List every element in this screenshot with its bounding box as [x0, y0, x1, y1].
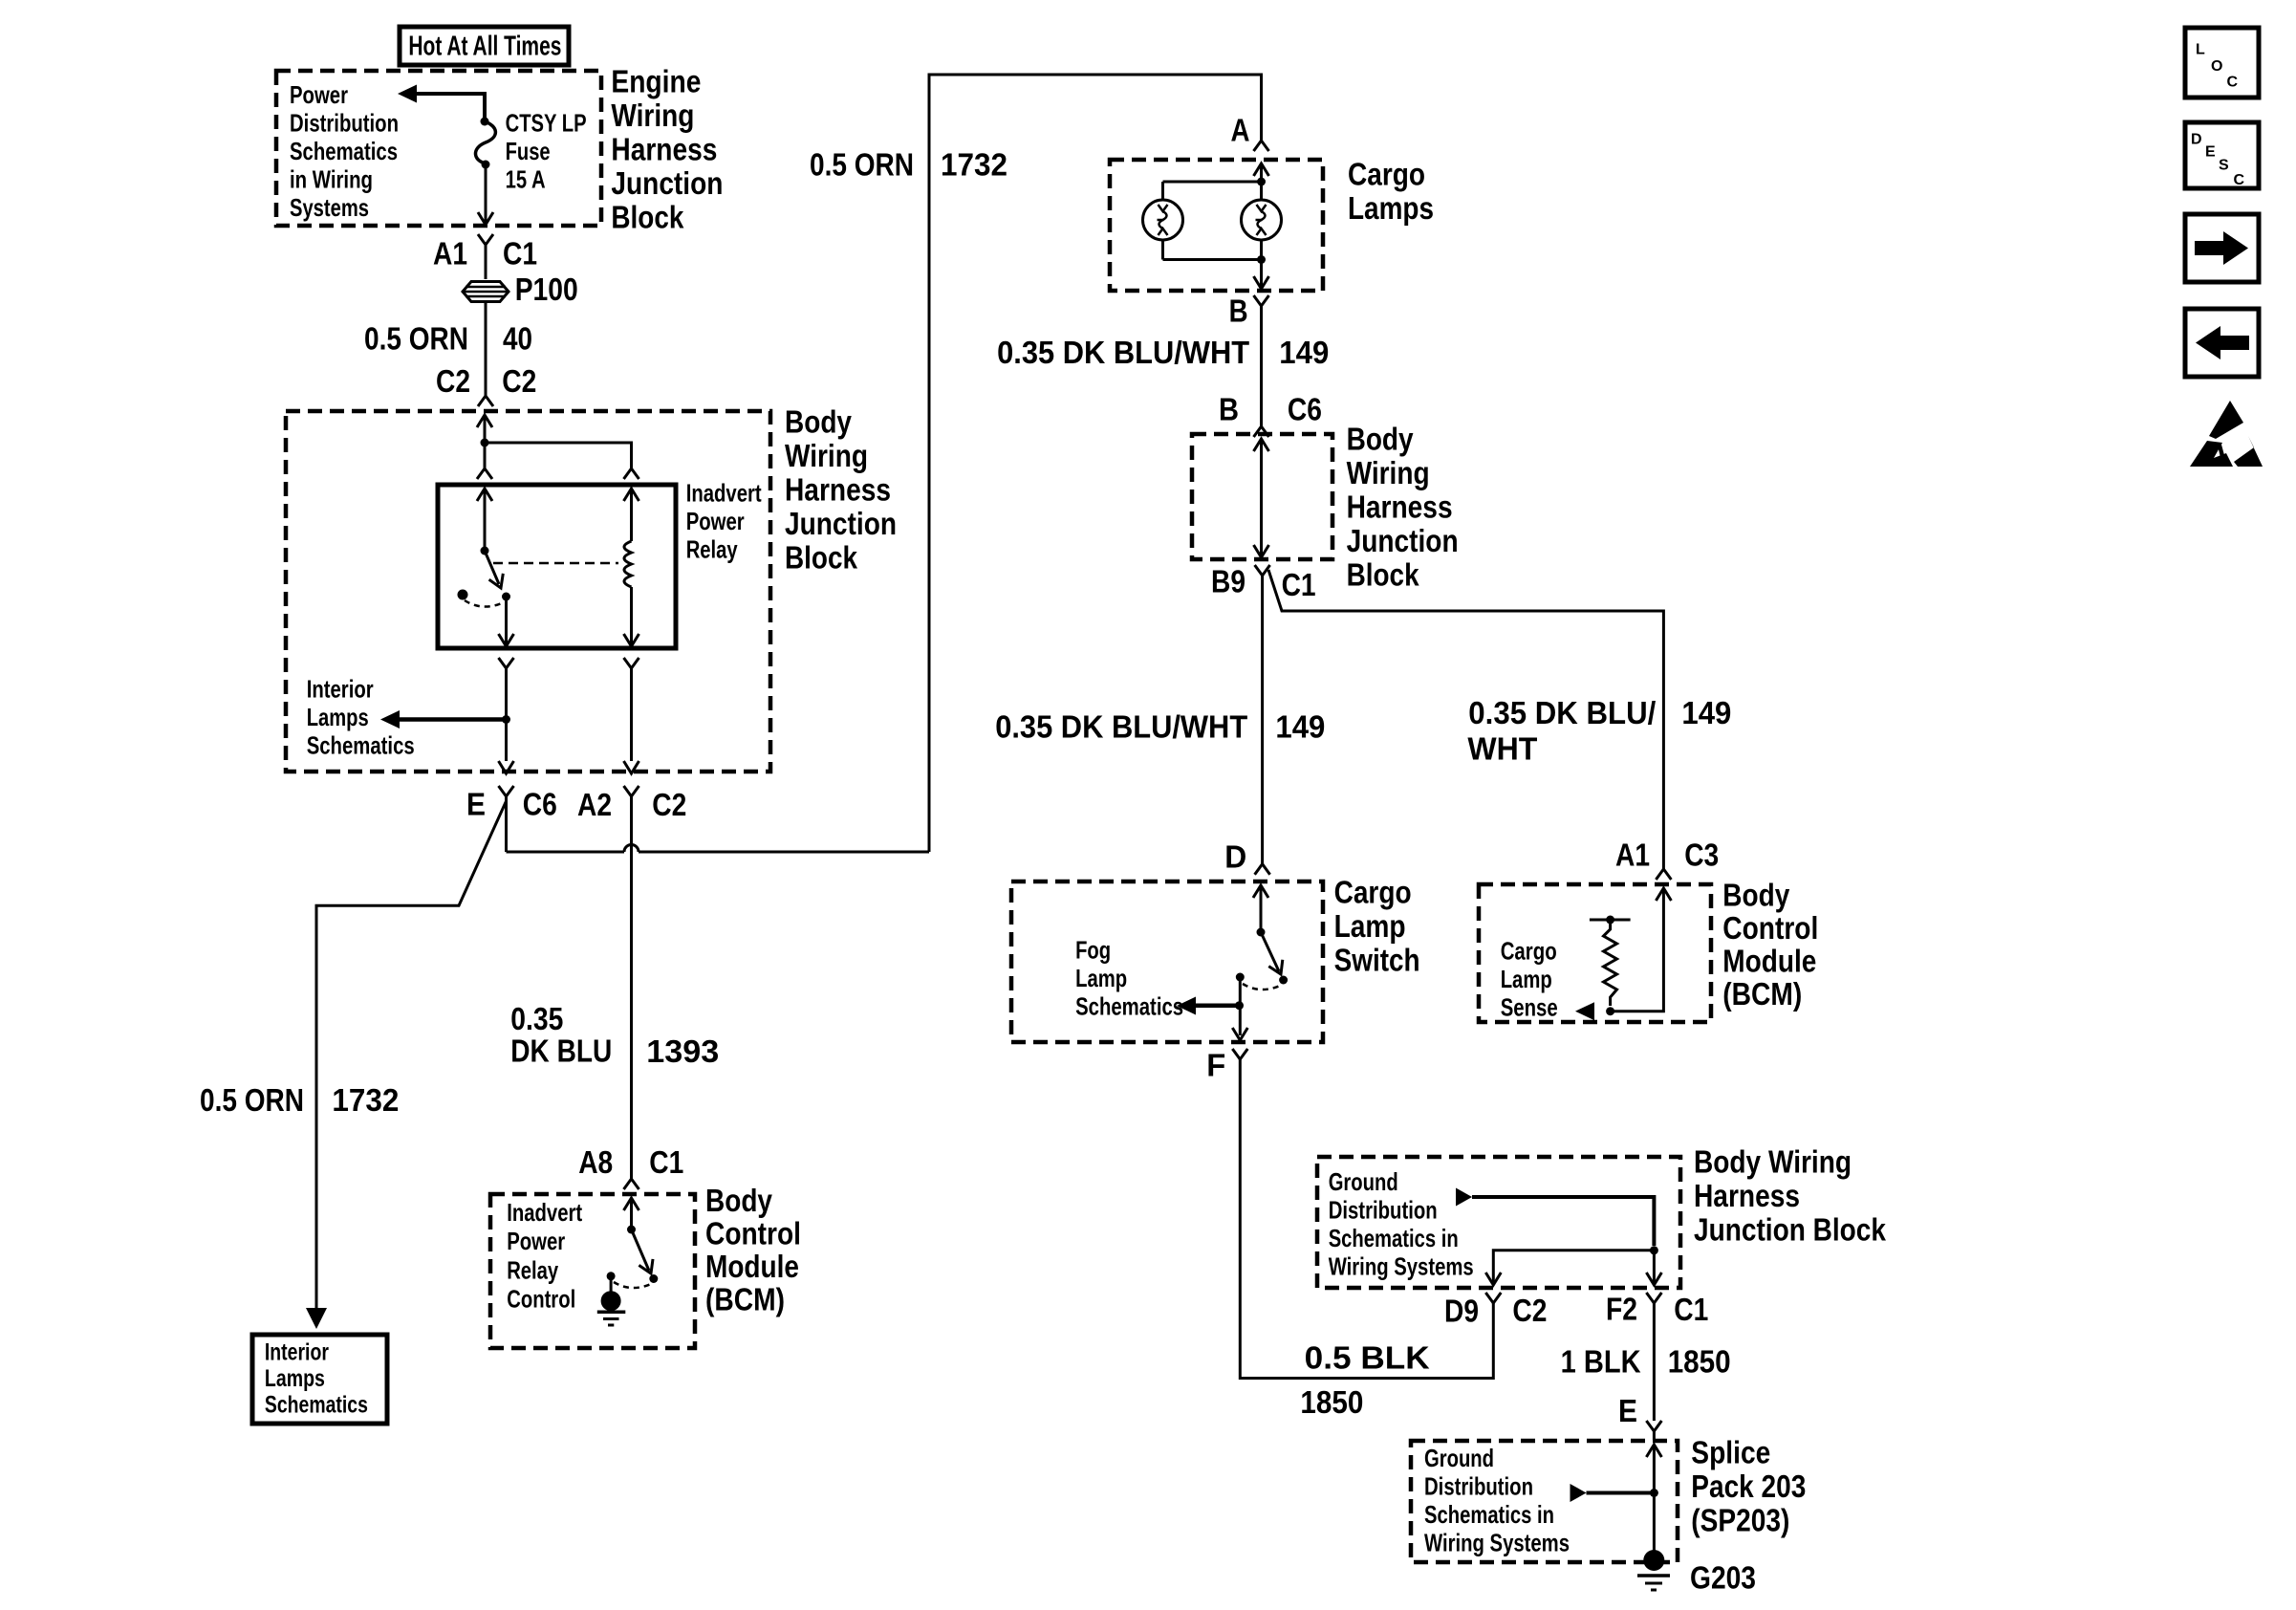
connector fork B9/C1 — [1255, 565, 1270, 576]
icon box: DESC — [2185, 122, 2259, 188]
ground symbol G203 — [1637, 1574, 1670, 1577]
svg-text:Relay: Relay — [686, 534, 738, 563]
svg-text:0.35 DK BLU/WHT: 0.35 DK BLU/WHT — [995, 709, 1247, 745]
wire: junction down to relay switch input — [484, 443, 487, 468]
wire: right lamp lower lead — [1260, 240, 1263, 260]
relay switch fixed contact dot — [458, 590, 468, 600]
connector fork F2/C1 — [1646, 1293, 1661, 1303]
svg-text:Distribution: Distribution — [1329, 1196, 1438, 1225]
svg-text:Schematics: Schematics — [290, 137, 398, 165]
svg-text:Harness: Harness — [785, 472, 891, 508]
BCM ground contact dot — [607, 1272, 616, 1280]
switch: Cargo Lamp Switch (dashed box) — [1011, 881, 1323, 1042]
wire: branch to Fog Lamp Schematics arrow — [1193, 1003, 1240, 1008]
connector fork E (splice) — [1646, 1421, 1661, 1431]
svg-text:15 A: 15 A — [506, 165, 546, 194]
wire: junction to relay coil branch — [485, 443, 632, 468]
label box: Interior Lamps Schematics — [252, 1335, 387, 1424]
svg-text:Module: Module — [705, 1249, 799, 1284]
svg-text:0.35 DK BLU/: 0.35 DK BLU/ — [1468, 695, 1656, 730]
wire 1393: A2 to BCM A8 — [630, 796, 633, 1179]
wire: left lamp drop lower — [1161, 240, 1164, 260]
svg-text:C2: C2 — [1512, 1293, 1547, 1328]
svg-text:Wiring: Wiring — [1347, 455, 1430, 490]
inline connector P100 (symbol) — [463, 282, 509, 302]
arrowhead into splice pack — [1646, 1445, 1661, 1457]
connector fork D9/C2 — [1485, 1293, 1501, 1303]
BCM switch pivot dot — [627, 1226, 636, 1234]
wire 1850: F2 to E — [1653, 1303, 1656, 1421]
junction dot to Fog Lamp arrow — [1235, 1001, 1244, 1010]
svg-text:Interior: Interior — [307, 674, 374, 703]
svg-text:1850: 1850 — [1668, 1343, 1731, 1379]
svg-text:Schematics in: Schematics in — [1329, 1224, 1459, 1252]
arrowhead into Body JB top edge — [477, 415, 492, 427]
connector fork C2/C2 — [478, 396, 493, 406]
junction dot to Interior Lamps — [502, 715, 510, 724]
wire: ground distribution feed — [1472, 1197, 1654, 1246]
junction dot cargo bottom rail — [1257, 255, 1266, 264]
svg-text:Lamps: Lamps — [307, 703, 369, 731]
ground dot G203 — [1643, 1550, 1664, 1571]
svg-text:Body Wiring: Body Wiring — [1694, 1143, 1852, 1179]
fuse CTSY LP 15A (element) — [475, 121, 495, 163]
svg-text:Power: Power — [686, 507, 745, 535]
svg-text:Splice: Splice — [1691, 1435, 1770, 1470]
wire: top edge to junction — [484, 415, 487, 443]
wire: relay coil output lead — [630, 587, 633, 646]
svg-text:in Wiring: in Wiring — [290, 164, 373, 193]
icon: back arrow — [2196, 326, 2249, 359]
svg-text:Lamps: Lamps — [265, 1365, 325, 1392]
wire: relay switch out to Body JB bottom edge — [505, 668, 508, 761]
wire: fuse feed to Power Distribution arrow — [415, 94, 485, 118]
svg-text:A8: A8 — [578, 1144, 613, 1180]
wire 1732: riser up and over to Cargo Lamps A — [929, 75, 1262, 852]
svg-text:40: 40 — [503, 321, 532, 357]
connector fork B/C6 — [1254, 426, 1269, 437]
svg-text:0.35 DK BLU/WHT: 0.35 DK BLU/WHT — [997, 335, 1249, 370]
arrowhead at Body JB bottom (coil side) — [624, 761, 639, 773]
svg-text:Body: Body — [785, 404, 853, 440]
reference arrow: Fog Lamp Schematics — [1177, 997, 1196, 1015]
svg-text:L: L — [2196, 42, 2205, 58]
svg-text:Block: Block — [611, 200, 684, 235]
svg-text:E: E — [2205, 144, 2216, 161]
svg-text:D: D — [1224, 839, 1246, 875]
svg-text:149: 149 — [1681, 695, 1731, 730]
reference arrow: to Power Distribution Schematics — [398, 85, 417, 103]
svg-text:C6: C6 — [1288, 392, 1322, 427]
svg-text:Fuse: Fuse — [506, 137, 551, 165]
BCM switch dashed arc — [614, 1282, 651, 1288]
switch pivot dot — [1257, 928, 1266, 937]
svg-text:D: D — [2191, 132, 2202, 148]
svg-text:Control: Control — [507, 1285, 575, 1314]
junction dot resistor top — [1606, 916, 1614, 925]
relay switch dashed arc — [465, 600, 504, 607]
wire: splice arrow shaft — [1587, 1491, 1655, 1495]
svg-text:Switch: Switch — [1334, 943, 1420, 978]
svg-text:C2: C2 — [502, 363, 536, 399]
svg-text:Body: Body — [705, 1183, 773, 1218]
wire 149: B to Body JB — [1260, 306, 1263, 426]
switch output contact dot — [1236, 973, 1245, 982]
connector fork into relay (coil side) — [624, 468, 639, 479]
svg-text:DK BLU: DK BLU — [510, 1033, 612, 1068]
svg-text:G203: G203 — [1690, 1560, 1756, 1596]
svg-text:E: E — [1618, 1393, 1637, 1428]
BCM switch blade — [632, 1229, 650, 1271]
connector fork D — [1255, 864, 1270, 875]
svg-text:Ground: Ground — [1329, 1167, 1398, 1196]
svg-text:WHT: WHT — [1467, 730, 1537, 766]
wire: E fork to splice box — [1653, 1431, 1656, 1440]
svg-text:D9: D9 — [1444, 1293, 1479, 1328]
svg-text:0.5 ORN: 0.5 ORN — [364, 321, 468, 357]
arrowhead at JB bottom (D9 leg) — [1485, 1273, 1501, 1285]
svg-text:Control: Control — [705, 1216, 801, 1251]
wire: fuse to junction block edge — [485, 164, 487, 223]
svg-text:F2: F2 — [1606, 1292, 1637, 1327]
connector fork A1/C1 — [478, 234, 493, 245]
svg-text:Wiring Systems: Wiring Systems — [1329, 1252, 1474, 1281]
svg-text:Power: Power — [507, 1227, 565, 1255]
connector fork E/C6 — [499, 786, 514, 796]
svg-text:0.5 BLK: 0.5 BLK — [1305, 1340, 1430, 1376]
svg-text:Schematics: Schematics — [265, 1392, 368, 1419]
svg-text:Schematics in: Schematics in — [1424, 1500, 1554, 1529]
svg-text:1850: 1850 — [1300, 1384, 1363, 1420]
arrowhead relay coil input — [624, 489, 639, 501]
svg-text:Distribution: Distribution — [1424, 1471, 1533, 1500]
switch blade arrowhead — [1268, 960, 1283, 974]
svg-text:C: C — [2234, 172, 2245, 188]
svg-text:Body: Body — [1722, 878, 1790, 913]
module: Body Control Module BCM (left) — [490, 1194, 695, 1348]
arrowhead into BCM right — [1656, 888, 1671, 901]
svg-text:Schematics: Schematics — [1075, 991, 1183, 1020]
wire: left lamp drop upper — [1161, 182, 1164, 201]
svg-text:Relay: Relay — [507, 1255, 558, 1284]
arrowhead into BCM left — [624, 1198, 639, 1210]
module: Body Control Module BCM (right) — [1479, 884, 1711, 1022]
svg-text:B: B — [1219, 392, 1239, 427]
junction dot ground split — [1650, 1246, 1658, 1254]
wire: relay coil out to Body JB bottom edge — [630, 668, 633, 761]
switch dashed arc — [1243, 984, 1280, 990]
svg-text:O: O — [2211, 58, 2222, 75]
junction dot resistor bottom — [1606, 1007, 1614, 1015]
svg-text:Power: Power — [290, 80, 348, 109]
svg-text:Cargo: Cargo — [1501, 936, 1557, 965]
svg-text:C1: C1 — [1282, 567, 1316, 602]
svg-text:Harness: Harness — [1347, 490, 1453, 525]
svg-text:Body: Body — [1347, 422, 1415, 457]
fuse bottom terminal dot — [482, 161, 490, 169]
svg-text:Block: Block — [1347, 557, 1420, 593]
arrowhead at JB bottom (F2 leg) — [1646, 1273, 1661, 1285]
svg-text:Lamps: Lamps — [1348, 190, 1434, 226]
svg-text:Block: Block — [785, 540, 858, 576]
arrowhead relay coil output — [624, 634, 639, 646]
svg-text:Ground: Ground — [1424, 1444, 1494, 1472]
svg-text:Distribution: Distribution — [290, 108, 399, 137]
BCM switch moving contact dot — [649, 1274, 658, 1283]
relay actuation dashed line — [493, 562, 618, 565]
connector fork A1/C3 — [1656, 869, 1671, 880]
reference arrow: Interior Lamps Schematics — [380, 710, 400, 729]
connector fork F — [1232, 1049, 1247, 1059]
connector fork into relay (switch side) — [477, 468, 492, 479]
relay switch moving contact dot — [502, 593, 510, 601]
svg-text:CTSY LP: CTSY LP — [506, 109, 587, 138]
junction block: Engine Wiring Harness Junction Block — [276, 71, 601, 226]
arrowhead at Body JB bottom (switch side) — [499, 761, 514, 773]
svg-text:C2: C2 — [436, 363, 470, 399]
icon box: back arrow — [2185, 309, 2259, 377]
svg-text:Fog: Fog — [1075, 935, 1111, 964]
connector fork B (cargo lamps) — [1254, 295, 1269, 306]
svg-text:Control: Control — [1722, 910, 1818, 946]
wire: cargo feed to top rail — [1260, 163, 1263, 182]
arrowhead to Interior Lamps Schematics box — [306, 1308, 327, 1329]
svg-text:1732: 1732 — [332, 1082, 399, 1118]
svg-text:F: F — [1206, 1048, 1225, 1083]
svg-text:Junction Block: Junction Block — [1694, 1211, 1887, 1247]
wire: cargo lamps return to bottom edge — [1260, 260, 1263, 288]
svg-text:(BCM): (BCM) — [705, 1282, 785, 1317]
svg-text:Lamp: Lamp — [1075, 964, 1127, 992]
switch blade — [1261, 932, 1279, 971]
svg-text:(BCM): (BCM) — [1722, 976, 1802, 1012]
svg-text:A2: A2 — [577, 787, 612, 822]
svg-text:Inadvert: Inadvert — [507, 1198, 582, 1227]
svg-text:(SP203): (SP203) — [1691, 1503, 1789, 1538]
svg-text:Inadvert: Inadvert — [686, 478, 762, 507]
svg-text:Lamp: Lamp — [1501, 965, 1552, 993]
wire 149 branch: B9 to BCM A1 — [1268, 570, 1663, 869]
wire: relay coil input lead — [630, 489, 633, 541]
svg-text:Wiring Systems: Wiring Systems — [1424, 1528, 1570, 1556]
BCM switch blade arrowhead — [639, 1259, 653, 1273]
cargo top rail — [1163, 181, 1262, 184]
svg-text:149: 149 — [1279, 335, 1329, 370]
arrowhead into switch box — [1253, 885, 1268, 898]
svg-text:C1: C1 — [1674, 1292, 1708, 1327]
svg-text:1732: 1732 — [941, 147, 1007, 183]
junction dot cargo top rail — [1257, 178, 1266, 186]
arrowhead at Engine JB bottom edge — [478, 212, 493, 225]
arrowhead into right JB top — [1254, 439, 1269, 451]
svg-text:S: S — [2219, 158, 2229, 174]
junction block: Body Wiring Harness Junction Block (bottom) — [1317, 1157, 1680, 1288]
wire: splice pack internal — [1653, 1445, 1656, 1553]
wire 149: B9 to D — [1261, 576, 1264, 864]
svg-text:B9: B9 — [1211, 564, 1245, 599]
svg-text:149: 149 — [1275, 709, 1325, 745]
svg-text:Interior: Interior — [265, 1339, 329, 1366]
junction block: Body Wiring Harness Junction Block (left) — [286, 411, 770, 772]
relay coil (element) — [624, 541, 632, 587]
arrowhead into Cargo Lamps top — [1254, 163, 1269, 176]
reference arrow: Ground Distribution (SP) — [1570, 1484, 1587, 1502]
svg-text:Cargo: Cargo — [1334, 875, 1412, 910]
svg-text:C6: C6 — [523, 786, 557, 821]
wire: A1 to P100 — [485, 245, 487, 279]
svg-text:Systems: Systems — [290, 193, 369, 222]
svg-text:Junction: Junction — [1347, 523, 1459, 558]
reference arrow: Ground Distribution (JB) — [1456, 1188, 1472, 1207]
svg-text:C1: C1 — [503, 236, 537, 272]
wire: E-C6 run toward cargo feed riser (right part) — [639, 851, 929, 854]
arrowhead at Cargo Lamps bottom edge — [1254, 276, 1269, 289]
connector fork below relay (switch out) — [499, 658, 514, 668]
ground dot (BCM) — [601, 1291, 621, 1311]
wire 1850: F down and right to D9 — [1240, 1059, 1493, 1379]
svg-text:Lamp: Lamp — [1334, 908, 1406, 944]
svg-text:P100: P100 — [515, 272, 578, 307]
svg-text:A: A — [1231, 113, 1250, 148]
svg-text:A1: A1 — [433, 236, 467, 272]
svg-text:Pack 203: Pack 203 — [1691, 1469, 1806, 1504]
label box: Hot At All Times — [400, 27, 569, 65]
icon box: forward arrow — [2185, 214, 2259, 282]
ground symbol (BCM) — [597, 1311, 626, 1315]
wire: BCM switch input to pivot — [630, 1198, 633, 1229]
svg-text:Hot At All Times: Hot At All Times — [408, 32, 561, 62]
junction dot splice — [1650, 1489, 1658, 1497]
splice pack: SP203 (dashed box) — [1411, 1441, 1678, 1562]
svg-text:C1: C1 — [649, 1144, 683, 1180]
cargo bottom rail — [1163, 258, 1262, 261]
arrowhead relay switch input — [477, 489, 492, 501]
svg-text:0.5 ORN: 0.5 ORN — [200, 1082, 304, 1118]
connector fork A2/C2 — [624, 786, 639, 796]
wire: branch to Interior Lamps arrow — [397, 717, 507, 722]
wire: ground split to D9 leg — [1493, 1251, 1654, 1282]
relay switch pivot dot — [481, 547, 489, 555]
svg-text:A1: A1 — [1615, 837, 1650, 872]
svg-text:Harness: Harness — [611, 132, 717, 167]
icon box: LOC — [2185, 28, 2259, 98]
svg-text:Sense: Sense — [1501, 992, 1558, 1021]
svg-text:1 BLK: 1 BLK — [1561, 1343, 1641, 1379]
relay: Inadvert Power Relay — [438, 485, 676, 648]
junction dot at relay feed split — [481, 439, 489, 447]
icon: ESD warning triangle — [2209, 401, 2243, 439]
wire: right lamp upper lead — [1260, 182, 1263, 201]
switch moving contact dot — [1279, 976, 1288, 985]
resistor: cargo lamp sense pull-up — [1590, 919, 1631, 922]
svg-text:Cargo: Cargo — [1348, 157, 1425, 192]
wire 40: P100 to C2 fork — [485, 302, 487, 396]
junction block: Body Wiring Harness Junction Block (right) — [1192, 434, 1332, 559]
svg-text:Engine: Engine — [611, 64, 701, 99]
relay switch blade — [485, 551, 499, 584]
svg-text:Junction: Junction — [785, 506, 897, 541]
connector fork A8/C1 — [624, 1179, 639, 1189]
wire inside right JB — [1260, 439, 1263, 557]
wire: switch input to pivot — [1260, 885, 1263, 932]
wire: BCM contact to ground — [610, 1276, 613, 1295]
component: Cargo Lamps (dashed box) — [1110, 160, 1323, 291]
wire: relay switch input to pivot — [484, 489, 487, 551]
svg-text:B: B — [1229, 294, 1248, 329]
svg-text:C3: C3 — [1684, 837, 1719, 872]
fuse top terminal dot — [481, 118, 489, 126]
svg-text:Harness: Harness — [1694, 1178, 1800, 1213]
svg-text:Module: Module — [1722, 944, 1816, 979]
svg-text:E: E — [466, 786, 486, 821]
svg-text:C: C — [2227, 75, 2239, 91]
wire 1732: E to orange branch corner — [316, 801, 507, 1308]
svg-text:0.35: 0.35 — [510, 1001, 563, 1036]
wire: relay switch output — [505, 600, 508, 646]
cargo lamp bulb (left) — [1143, 200, 1183, 240]
wire hop over A2 wire — [624, 845, 639, 853]
connector fork below relay (coil out) — [624, 658, 639, 668]
arrowhead at right JB bottom — [1254, 545, 1269, 557]
wire: E stem down — [505, 796, 508, 852]
relay switch blade arrowhead — [489, 574, 504, 588]
svg-text:Junction: Junction — [611, 165, 723, 201]
arrowhead relay switch output — [499, 634, 514, 646]
svg-text:Schematics: Schematics — [307, 730, 415, 759]
svg-text:1393: 1393 — [646, 1033, 719, 1069]
wire: switch output down — [1239, 977, 1242, 1035]
connector fork A (cargo lamps) — [1254, 141, 1269, 151]
wire: E-C6 run toward cargo feed riser (left part) — [507, 851, 625, 854]
icon: forward arrow — [2195, 231, 2248, 265]
svg-text:C2: C2 — [652, 787, 686, 822]
svg-text:0.5 ORN: 0.5 ORN — [810, 147, 914, 183]
reference arrow: Cargo Lamp Sense — [1575, 1002, 1594, 1020]
cargo lamp bulb (right) — [1242, 200, 1282, 240]
wire: ground split to F2 leg — [1653, 1251, 1656, 1282]
svg-text:Wiring: Wiring — [785, 438, 868, 473]
arrowhead at switch box bottom — [1232, 1028, 1247, 1040]
svg-text:Wiring: Wiring — [611, 98, 694, 133]
wire: BCM sense input down — [1611, 888, 1664, 1012]
